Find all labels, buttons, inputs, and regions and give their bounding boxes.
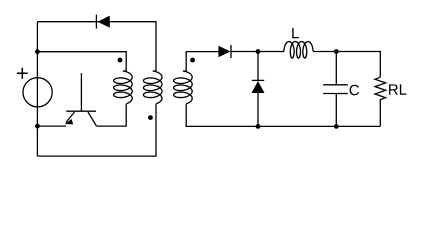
- polarity dot secondary: [190, 58, 195, 63]
- wire secondary bottom rail: [186, 104, 380, 126]
- wire input node to primary top: [37, 52, 126, 71]
- inductor L: [284, 42, 313, 59]
- diode D3 freewheeling (pointing up): [252, 52, 265, 127]
- transformer primary winding: [114, 71, 133, 104]
- node B junction dot (source - / emitter): [35, 124, 40, 129]
- resistor RL: [375, 77, 386, 126]
- transistor Q1: [65, 73, 97, 126]
- wire collector to primary bottom: [97, 104, 127, 126]
- node D junction dot (cap top): [334, 49, 339, 54]
- wire emitter to rail: [37, 125, 66, 127]
- label C: [350, 85, 359, 96]
- capacitor C: [323, 52, 348, 127]
- node C junction dot (freewheel top): [256, 49, 261, 54]
- wire diode to L node: [231, 51, 284, 53]
- node E junction dot (freewheel bottom): [256, 124, 261, 129]
- wire secondary top to diode: [186, 52, 219, 71]
- node F junction dot (cap bottom): [334, 124, 339, 129]
- transformer secondary winding: [174, 71, 193, 104]
- wire L to output: [313, 52, 380, 78]
- wire top (input + to reset winding top): [37, 22, 156, 71]
- wire left rail: [36, 22, 38, 156]
- polarity dot primary: [118, 58, 123, 63]
- polarity dot reset winding: [148, 115, 153, 120]
- voltage source V1: [23, 78, 52, 107]
- plus sign: [17, 68, 28, 79]
- label RL: [389, 84, 406, 94]
- node A junction dot (input +): [35, 49, 40, 54]
- transformer reset winding: [143, 71, 162, 104]
- label L: [292, 28, 299, 38]
- diode D2 series rectifier (pointing right): [218, 45, 231, 58]
- diode D1 demagnetizing (pointing left): [96, 15, 109, 29]
- wire bottom rail to reset winding: [37, 104, 156, 156]
